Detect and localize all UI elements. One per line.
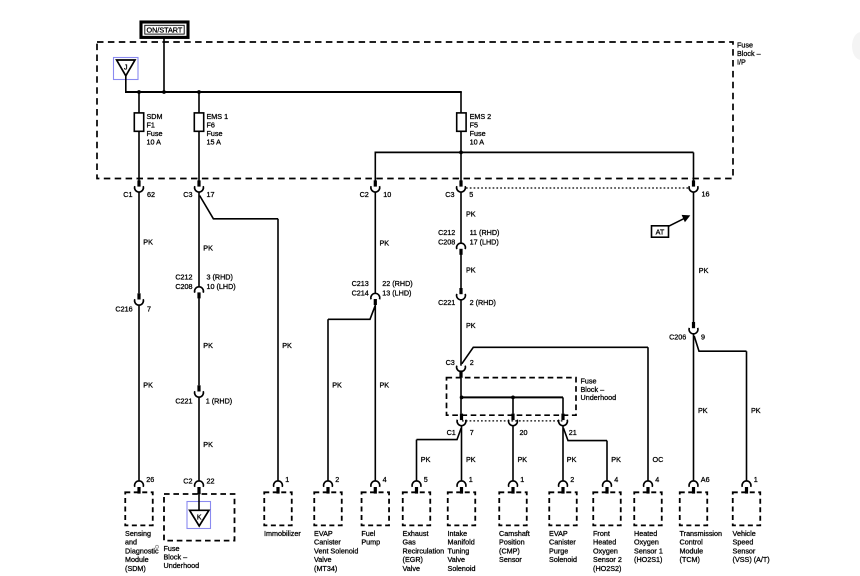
svg-text:PK: PK — [380, 381, 390, 390]
svg-text:PK: PK — [143, 381, 153, 390]
svg-text:Valve: Valve — [314, 555, 331, 564]
svg-text:9: 9 — [701, 332, 705, 341]
svg-text:Underhood: Underhood — [164, 561, 200, 570]
svg-text:Solenoid: Solenoid — [448, 564, 476, 573]
svg-text:OC: OC — [653, 455, 664, 464]
svg-text:Sensor: Sensor — [733, 546, 756, 555]
svg-text:Gas: Gas — [403, 538, 417, 547]
svg-text:1: 1 — [469, 475, 473, 484]
svg-text:C216: C216 — [115, 304, 132, 313]
svg-text:(HO2S1): (HO2S1) — [634, 555, 662, 564]
svg-text:62: 62 — [147, 190, 155, 199]
svg-text:Oxygen: Oxygen — [634, 538, 659, 547]
svg-text:21: 21 — [569, 428, 577, 437]
svg-text:7: 7 — [470, 428, 474, 437]
svg-text:1: 1 — [520, 475, 524, 484]
svg-text:2: 2 — [470, 358, 474, 367]
svg-text:Valve: Valve — [403, 564, 420, 573]
svg-text:(SDM): (SDM) — [125, 564, 146, 573]
svg-text:5: 5 — [469, 190, 473, 199]
svg-text:10 A: 10 A — [470, 138, 485, 147]
svg-text:PK: PK — [611, 455, 621, 464]
svg-text:2 (RHD): 2 (RHD) — [470, 298, 496, 307]
svg-text:Valve: Valve — [448, 555, 465, 564]
svg-text:7: 7 — [147, 304, 151, 313]
svg-text:AT: AT — [656, 228, 665, 237]
svg-text:10 A: 10 A — [147, 138, 162, 147]
svg-text:4: 4 — [383, 475, 387, 484]
svg-text:Block –: Block – — [737, 49, 761, 58]
svg-text:PK: PK — [466, 266, 476, 275]
svg-text:4: 4 — [655, 475, 659, 484]
svg-text:Vent Solenoid: Vent Solenoid — [314, 546, 358, 555]
svg-text:PK: PK — [380, 238, 390, 247]
svg-text:11 (RHD): 11 (RHD) — [470, 228, 500, 237]
svg-text:C212: C212 — [438, 228, 455, 237]
svg-text:C3: C3 — [445, 190, 454, 199]
svg-text:PK: PK — [699, 266, 709, 275]
svg-text:C212: C212 — [175, 272, 192, 281]
svg-text:(VSS) (A/T): (VSS) (A/T) — [733, 555, 770, 564]
svg-text:K: K — [197, 515, 202, 522]
svg-text:22: 22 — [207, 476, 215, 485]
svg-text:3 (RHD): 3 (RHD) — [207, 272, 233, 281]
svg-text:Recirculation: Recirculation — [403, 546, 445, 555]
svg-text:10 (LHD): 10 (LHD) — [207, 282, 236, 291]
svg-text:Fuse: Fuse — [164, 544, 180, 553]
svg-text:Module: Module — [125, 555, 149, 564]
svg-text:C2: C2 — [360, 190, 369, 199]
svg-text:2: 2 — [335, 475, 339, 484]
svg-text:EVAP: EVAP — [314, 529, 333, 538]
svg-text:2: 2 — [570, 475, 574, 484]
svg-text:Fuel: Fuel — [361, 529, 375, 538]
svg-text:C206: C206 — [669, 332, 686, 341]
svg-text:PK: PK — [466, 210, 476, 219]
svg-text:PK: PK — [567, 455, 577, 464]
svg-text:Position: Position — [499, 538, 525, 547]
svg-text:PK: PK — [518, 455, 528, 464]
svg-text:EVAP: EVAP — [549, 529, 568, 538]
svg-text:C1: C1 — [447, 428, 456, 437]
svg-text:(MT34): (MT34) — [314, 564, 337, 573]
svg-text:Heated: Heated — [593, 538, 616, 547]
svg-text:(TCM): (TCM) — [680, 555, 700, 564]
svg-text:Immobilizer: Immobilizer — [264, 529, 301, 538]
svg-text:Sensor 1: Sensor 1 — [634, 546, 663, 555]
svg-text:C208: C208 — [175, 282, 192, 291]
svg-text:Camshaft: Camshaft — [499, 529, 530, 538]
svg-text:Vehicle: Vehicle — [733, 529, 756, 538]
svg-text:Canister: Canister — [549, 538, 576, 547]
svg-text:Heated: Heated — [634, 529, 657, 538]
svg-text:(HO2S2): (HO2S2) — [593, 564, 621, 573]
svg-text:20: 20 — [520, 428, 528, 437]
svg-text:1: 1 — [754, 475, 758, 484]
svg-text:Control: Control — [680, 538, 704, 547]
svg-text:C3: C3 — [446, 358, 455, 367]
svg-text:C1: C1 — [123, 190, 132, 199]
svg-text:C221: C221 — [438, 298, 455, 307]
svg-text:13 (LHD): 13 (LHD) — [382, 288, 411, 297]
svg-text:16: 16 — [702, 190, 710, 199]
svg-text:Pump: Pump — [361, 538, 380, 547]
svg-text:I/P: I/P — [737, 58, 746, 67]
svg-text:Underhood: Underhood — [581, 393, 617, 402]
svg-text:(CMP): (CMP) — [499, 546, 520, 555]
svg-text:PK: PK — [203, 244, 213, 253]
svg-text:PK: PK — [203, 440, 213, 449]
svg-text:PK: PK — [421, 455, 431, 464]
svg-text:22 (RHD): 22 (RHD) — [382, 279, 412, 288]
svg-text:Oxygen: Oxygen — [593, 546, 618, 555]
svg-text:C208: C208 — [438, 237, 455, 246]
svg-text:C3: C3 — [183, 190, 192, 199]
svg-text:PK: PK — [143, 238, 153, 247]
svg-text:Transmission: Transmission — [680, 529, 722, 538]
svg-text:1 (RHD): 1 (RHD) — [206, 396, 232, 405]
svg-text:5: 5 — [424, 475, 428, 484]
svg-text:Block –: Block – — [164, 553, 188, 562]
svg-text:PK: PK — [282, 341, 292, 350]
svg-text:Purge: Purge — [549, 546, 568, 555]
svg-text:PK: PK — [698, 406, 708, 415]
svg-text:Canister: Canister — [314, 538, 341, 547]
svg-text:Exhaust: Exhaust — [403, 529, 429, 538]
svg-text:C221: C221 — [175, 396, 192, 405]
svg-text:C214: C214 — [352, 288, 369, 297]
svg-text:Fuse: Fuse — [737, 40, 753, 49]
svg-text:Solenoid: Solenoid — [549, 555, 577, 564]
svg-text:A6: A6 — [701, 475, 710, 484]
svg-text:17 (LHD): 17 (LHD) — [470, 237, 499, 246]
svg-text:(EGR): (EGR) — [403, 555, 423, 564]
svg-text:PK: PK — [332, 381, 342, 390]
svg-text:1: 1 — [285, 475, 289, 484]
svg-text:17: 17 — [207, 190, 215, 199]
svg-text:10: 10 — [383, 190, 391, 199]
svg-text:C2: C2 — [183, 476, 192, 485]
svg-text:PK: PK — [203, 341, 213, 350]
svg-text:Sensing: Sensing — [125, 529, 151, 538]
svg-text:Front: Front — [593, 529, 610, 538]
svg-text:Tuning: Tuning — [448, 546, 470, 555]
svg-text:PK: PK — [466, 321, 476, 330]
svg-text:4: 4 — [614, 475, 618, 484]
svg-text:Sensor 2: Sensor 2 — [593, 555, 622, 564]
svg-text:26: 26 — [146, 475, 154, 484]
svg-text:ON/START: ON/START — [147, 25, 183, 34]
svg-text:C213: C213 — [352, 279, 369, 288]
svg-text:J: J — [124, 65, 128, 72]
svg-text:Speed: Speed — [733, 538, 754, 547]
svg-text:Diagnostic: Diagnostic — [125, 546, 159, 555]
svg-text:15 A: 15 A — [207, 138, 222, 147]
svg-text:Sensor: Sensor — [499, 555, 522, 564]
svg-text:and: and — [125, 538, 137, 547]
svg-text:PK: PK — [751, 406, 761, 415]
svg-text:Intake: Intake — [448, 529, 468, 538]
svg-text:Manifold: Manifold — [448, 538, 475, 547]
svg-text:Module: Module — [680, 546, 704, 555]
svg-text:PK: PK — [466, 455, 476, 464]
